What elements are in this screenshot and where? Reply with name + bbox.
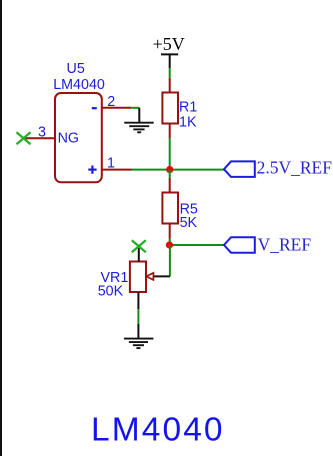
pin number 1 — [107, 156, 115, 172]
svg-text:50K: 50K — [98, 284, 124, 300]
label R5 — [180, 202, 198, 218]
wire +5V to R1 — [169, 68, 171, 78]
no-connect X on VR1 top — [132, 240, 146, 252]
label R1 — [179, 100, 197, 116]
no-connect X on pin 3 — [17, 132, 31, 144]
wire pin1 to node — [132, 169, 170, 171]
wire VR1 to ground — [137, 309, 139, 324]
potentiometer VR1 — [130, 246, 146, 309]
label 5K — [180, 215, 198, 231]
pin number 2 — [107, 94, 115, 110]
svg-text:NG: NG — [58, 131, 79, 147]
pin 1 of U5 — [102, 169, 132, 171]
wire node V_REF down to wiper — [169, 245, 171, 276]
junction node V_REF — [166, 241, 173, 248]
ground GND1 — [124, 108, 153, 133]
label VR1 — [101, 270, 129, 286]
port 2.5V_REF — [224, 157, 332, 177]
label NG — [58, 131, 79, 147]
resistor R5 — [162, 178, 178, 239]
svg-text:1K: 1K — [179, 114, 197, 130]
wire R5 to node V_REF — [169, 239, 171, 246]
svg-text:U5: U5 — [67, 61, 85, 77]
pin name - (minus) — [92, 107, 97, 109]
wire node to R5 — [169, 170, 171, 178]
label 50K — [98, 284, 124, 300]
title text LM4040 — [91, 412, 225, 449]
svg-text:2: 2 — [107, 94, 115, 110]
svg-text:1: 1 — [107, 156, 115, 172]
svg-text:5K: 5K — [180, 215, 198, 231]
pin 3 of U5 — [24, 137, 56, 139]
op-amp U5 LM4040 body — [55, 93, 102, 182]
resistor R1 — [162, 78, 178, 138]
svg-text:3: 3 — [38, 124, 46, 140]
svg-text:LM4040: LM4040 — [91, 412, 225, 449]
svg-text:2.5V_REF: 2.5V_REF — [257, 157, 333, 177]
wire pin2 to ground — [131, 107, 139, 109]
ground GND2 — [124, 324, 153, 348]
wire node V_REF to port — [170, 244, 224, 246]
power +5V — [153, 34, 185, 68]
wiper lead of VR1 — [146, 273, 170, 280]
label U5 — [67, 61, 85, 77]
pin name + (plus) — [88, 166, 96, 174]
wire node to 2.5V_REF port — [170, 169, 224, 171]
junction node 2.5V_REF — [166, 166, 173, 173]
svg-text:V_REF: V_REF — [258, 235, 312, 255]
pin 2 of U5 — [102, 107, 131, 109]
label LM4040 — [53, 77, 105, 93]
svg-text:R1: R1 — [179, 100, 197, 116]
label 1K — [179, 114, 197, 130]
svg-text:+5V: +5V — [153, 34, 185, 54]
wire R1 to node 2.5V_REF — [169, 138, 171, 170]
port V_REF — [224, 235, 311, 255]
svg-text:LM4040: LM4040 — [53, 77, 105, 93]
pin number 3 — [38, 124, 46, 140]
